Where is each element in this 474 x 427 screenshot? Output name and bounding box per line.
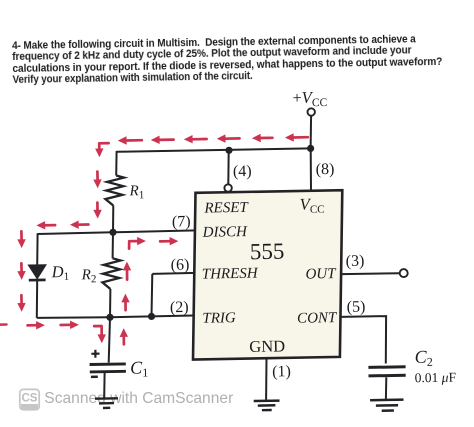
wire to RESET pin 4 [227, 150, 229, 184]
node junction THRESH/TRIG [148, 313, 155, 320]
terminal OUT [400, 269, 408, 277]
svg-text:DISCH: DISCH [202, 224, 249, 241]
problem statement text [12, 34, 473, 87]
capacitor C1 [90, 362, 126, 366]
svg-text:Scanned with CamScanner: Scanned with CamScanner [44, 390, 233, 407]
resistor R2 [102, 258, 120, 289]
wire node down to C1 [109, 317, 110, 362]
op-amp U1 555 timer IC body [193, 190, 342, 359]
wire R1 bottom to node [112, 206, 114, 233]
red arrow tail at left edge [0, 323, 7, 326]
svg-text:(7): (7) [172, 213, 191, 230]
wire bottom net to TRIG pin 2 [37, 316, 194, 318]
C1 plus sign [94, 350, 96, 358]
svg-text:OUT: OUT [305, 266, 337, 283]
svg-text:THRESH: THRESH [202, 266, 259, 283]
svg-text:+VCC: +VCC [292, 88, 327, 110]
red arrow down beside D1 2 [20, 263, 23, 271]
red arrow right below bottom wire 1 [28, 324, 37, 327]
svg-text:R2: R2 [81, 267, 97, 285]
CamScanner badge [20, 389, 39, 409]
red bent arrow right toward DISCH [129, 241, 138, 249]
red arrow right below bottom wire 2 [61, 323, 71, 326]
svg-text:C2: C2 [415, 347, 433, 370]
red arrow right toward DISCH [160, 240, 170, 243]
diode D1 [29, 265, 46, 278]
terminal pin 4 [224, 184, 231, 191]
node junction R2/C1 [106, 314, 113, 321]
red arrow left on rail 5 [260, 136, 272, 139]
wire C1 to ground [103, 373, 105, 398]
red bent arrow down at rail end [99, 143, 108, 149]
wire down to D1 anode [36, 233, 38, 265]
svg-text:C1: C1 [130, 357, 148, 379]
red arrow left above node wire 1 [45, 224, 55, 227]
svg-text:(5): (5) [347, 298, 366, 315]
svg-text:(1): (1) [272, 363, 291, 380]
wire node down to R2 [112, 232, 114, 258]
node junction R1/R2/DISCH [109, 229, 116, 236]
wire rail corner down to R1 [115, 151, 117, 176]
node junction VCC rail/pin 8 [307, 145, 314, 152]
wire OUT pin 3 [342, 272, 400, 275]
red bent arrow down toward C1 [94, 326, 102, 335]
svg-text:(8): (8) [316, 161, 335, 178]
wire GND pin 1 to ground [265, 358, 267, 399]
red arrow down beside D1 3 [20, 295, 23, 303]
red arrow down beside D1 1 [20, 231, 23, 239]
red arrow left on rail 2 [159, 138, 174, 141]
wire VCC terminal down [310, 116, 313, 149]
red arrow left on rail 6 [293, 136, 308, 139]
C1 minus sign [91, 376, 98, 379]
red arrow up beside C1 wire [122, 336, 125, 344]
svg-text:(6): (6) [171, 256, 190, 273]
svg-text:555: 555 [250, 239, 285, 265]
wire top VCC rail [117, 148, 311, 151]
svg-text:GND: GND [249, 336, 285, 356]
svg-text:RESET: RESET [203, 200, 249, 217]
red arrow down beside R1 upper [96, 172, 99, 180]
red arrow up beside R2 lower [124, 302, 127, 310]
ground below C1 [95, 397, 118, 400]
ground below C2 [370, 398, 403, 401]
wire node to DISCH pin 7 [113, 230, 196, 232]
svg-text:TRIG: TRIG [202, 310, 236, 327]
node junction rail/pin 4 [225, 147, 232, 154]
svg-text:CONT: CONT [297, 310, 338, 327]
red arrow left on rail 1 [126, 139, 142, 142]
capacitor C2 [368, 365, 405, 369]
svg-text:0.01 μF: 0.01 μF [415, 370, 457, 386]
svg-text:(3): (3) [346, 253, 365, 270]
wire up to THRESH [151, 274, 154, 317]
wire node left to D1 [38, 232, 113, 234]
wire to THRESH pin 6 [152, 273, 196, 274]
red arrow down beside R1 lower [96, 203, 99, 211]
wire CONT pin 5 to C2 [341, 316, 386, 363]
red arrow left on rail 3 [192, 138, 207, 141]
wire D1 cathode down [36, 280, 38, 318]
terminal +VCC [308, 108, 315, 115]
wire C2 to ground [385, 377, 387, 399]
red arrow left above node wire 2 [78, 223, 88, 226]
svg-text:CS: CS [22, 393, 38, 405]
diode D1 cathode bar [29, 279, 46, 282]
ground below GND pin 1 [254, 399, 280, 402]
red arrow up beside R2 upper [126, 270, 129, 280]
svg-text:(4): (4) [233, 163, 252, 180]
resistor R1 [105, 176, 124, 206]
wire to VCC pin 8 [310, 148, 312, 190]
wire R2 bottom [109, 289, 111, 317]
svg-text:R1: R1 [128, 183, 144, 201]
svg-text:(2): (2) [170, 299, 189, 316]
red arrow left on rail 4 [225, 137, 240, 140]
svg-text:D1: D1 [51, 262, 70, 283]
